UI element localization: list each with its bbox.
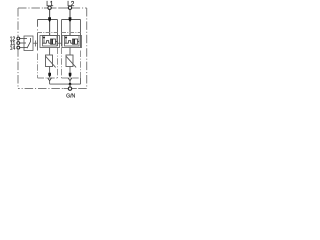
bottom bus wire [50, 83, 81, 85]
wire terminal 11 [20, 42, 25, 44]
switch wire module 2 [65, 42, 73, 44]
terminal 14 [17, 46, 20, 49]
wire terminal 14 [20, 47, 25, 49]
mechanical link to module 1 [33, 42, 38, 44]
switch bridge module 1 [47, 41, 49, 44]
terminal L2 [68, 6, 71, 9]
module 2 left border lower [61, 48, 63, 79]
border solid segment at terminal G/N [64, 88, 77, 90]
wire L2 left branch [61, 20, 63, 47]
fuse out wire module 1 [56, 41, 58, 43]
wire L2 right branch [80, 20, 82, 48]
fuse module 2 [73, 39, 78, 44]
svg-text:G/N: G/N [66, 93, 75, 99]
device outer dash-dot border bottom [18, 88, 87, 90]
wire L1 left branch dot [37, 29, 39, 30]
varistor diagonal module 1 [46, 56, 56, 67]
mechanical link tick [35, 41, 37, 47]
module 1 dash-dot box [38, 32, 58, 34]
varistor feed wire module 2 [69, 48, 71, 56]
module 1 left border lower [37, 54, 39, 79]
module 1 right border lower [57, 48, 59, 79]
bottom plug arrow module 1 [48, 73, 51, 78]
fuse module 1 [51, 39, 56, 44]
wire chevron 2 to bus [69, 81, 71, 84]
contact blade [27, 38, 31, 48]
wire L2 drop [69, 10, 71, 36]
plug contact arrow L2 [69, 17, 72, 22]
disconnector stub module 2 [65, 36, 67, 37]
wire terminal 12 [20, 38, 25, 40]
bottom plug arrow module 2 [69, 73, 72, 78]
disconnector stub module 1 [43, 36, 45, 37]
wire L1 left branch [37, 20, 39, 27]
module 1 bottom border [38, 77, 58, 79]
varistor body module 1 [46, 55, 53, 67]
wire module 2 right to bus [80, 78, 82, 84]
disconnector shaft module 2 [65, 39, 67, 43]
fuse bar module 1 [51, 39, 53, 44]
terminal 12 [17, 37, 20, 40]
SCI outer box module 1 [40, 36, 60, 48]
device outer dash-dot border right [86, 8, 88, 89]
SCI inner box module 1 [43, 36, 58, 47]
plug contact arrow L1 [48, 17, 51, 22]
SCI inner box module 2 [65, 36, 80, 47]
device outer dash-dot border top [18, 7, 87, 9]
varistor feed wire module 1 [49, 48, 51, 56]
disconnector arrow module 2 [65, 37, 67, 40]
terminal L1 [48, 6, 51, 9]
varistor out wire module 1 [49, 67, 51, 74]
module 2 dash-dot box [62, 32, 81, 34]
svg-text:14: 14 [10, 46, 16, 52]
mechanical link between modules [58, 42, 62, 44]
varistor body module 2 [66, 55, 73, 67]
module 2 bottom border [62, 77, 81, 79]
bottom chevron module 2 [68, 78, 72, 81]
module 2 right border lower [80, 51, 82, 79]
terminal G/N [68, 87, 71, 90]
disconnector arrow module 1 [43, 37, 45, 40]
wire L1 left branch lower [37, 33, 39, 51]
bottom chevron module 1 [48, 78, 52, 81]
wire L1 cross bus [38, 19, 58, 21]
wire L2 cross bus [62, 19, 81, 21]
contact stubs [24, 39, 27, 48]
switch bridge module 2 [69, 41, 71, 44]
wire L1 right branch [57, 20, 59, 47]
fuse out wire module 2 [78, 41, 80, 43]
varistor diagonal module 2 [66, 56, 76, 67]
signal contact box [24, 36, 33, 51]
device outer dash-dot border left [17, 8, 19, 89]
border solid segment at terminal L2 [64, 7, 77, 9]
wire chevron 1 to bus [49, 81, 51, 84]
switch wire module 1 [43, 42, 51, 44]
varistor out wire module 2 [69, 67, 71, 74]
border solid segment at terminal L1 [44, 7, 57, 9]
bus junction dot [69, 83, 72, 86]
wire L1 drop [49, 10, 51, 36]
SCI outer box module 2 [62, 36, 82, 48]
disconnector shaft module 1 [43, 39, 45, 43]
fuse bar module 2 [73, 39, 75, 44]
wire to bottom terminal [69, 84, 71, 87]
terminal 11 [17, 42, 20, 45]
